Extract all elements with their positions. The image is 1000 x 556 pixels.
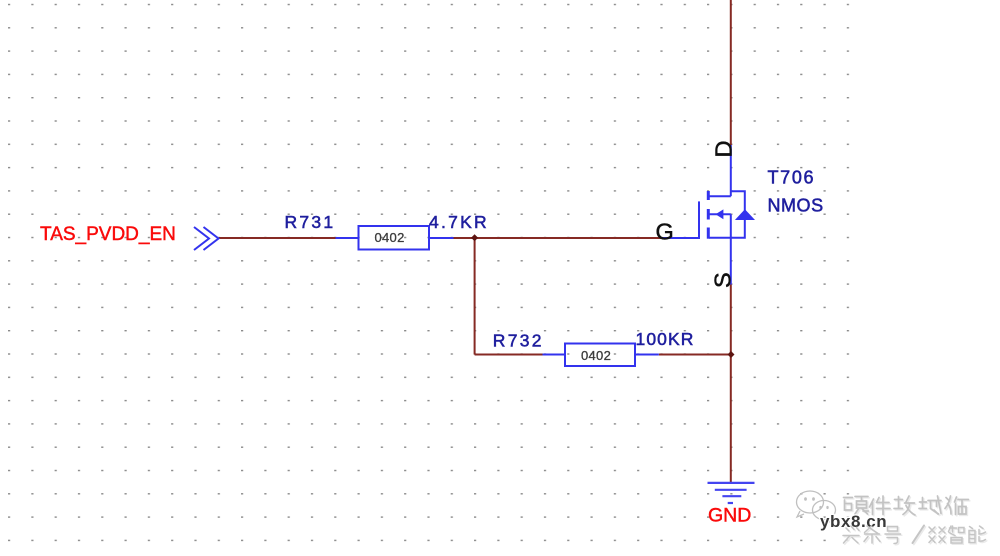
- svg-text:0402: 0402: [581, 348, 611, 363]
- svg-text:100KR: 100KR: [636, 329, 695, 349]
- svg-text:NMOS: NMOS: [768, 195, 824, 215]
- svg-text:R731: R731: [285, 212, 336, 232]
- svg-text:D: D: [711, 141, 737, 158]
- svg-text:TAS_PVDD_EN: TAS_PVDD_EN: [40, 224, 176, 245]
- svg-text:R732: R732: [493, 331, 544, 351]
- svg-text:GND: GND: [708, 505, 751, 527]
- svg-text:S: S: [710, 272, 736, 288]
- svg-text:G: G: [656, 218, 674, 244]
- svg-text:4.7KR: 4.7KR: [429, 212, 489, 232]
- svg-text:T706: T706: [768, 168, 816, 188]
- svg-text:0402: 0402: [375, 230, 405, 245]
